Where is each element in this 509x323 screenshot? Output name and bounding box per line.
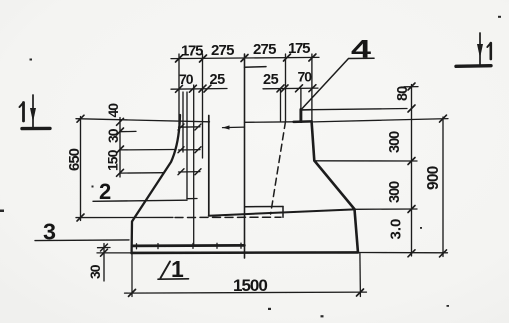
leader line for pos.2 — [93, 200, 187, 201]
section mark 1 (left) : bar — [22, 127, 50, 131]
slab toe bottom line — [97, 252, 132, 254]
svg-text:300: 300 — [387, 181, 403, 203]
label /1 underline — [158, 278, 189, 280]
ticks 25-70 right — [277, 85, 316, 92]
svg-text:70: 70 — [179, 71, 194, 87]
hidden step vertical — [282, 207, 284, 218]
ticks 70-25 left — [176, 85, 212, 92]
recess left edge — [208, 116, 210, 216]
toe thickness dim line 30 — [103, 244, 105, 282]
rebar cage hook — [187, 198, 197, 200]
650 ticks — [77, 115, 84, 221]
tenon (pos.4) left bold edge — [299, 110, 302, 122]
top dimension line — [171, 57, 319, 58]
extension line 275/175 right — [285, 54, 287, 121]
cage crossbar 2 — [179, 149, 201, 151]
section mark 1 (right) : arrow line — [479, 33, 481, 65]
right chain top stub — [404, 86, 418, 88]
left chain extension 30 level — [120, 130, 136, 132]
svg-text:2: 2 — [99, 179, 111, 204]
svg-text:40: 40 — [105, 103, 121, 118]
svg-text:275: 275 — [211, 42, 234, 59]
extension of knee line to right chain — [355, 208, 418, 210]
extension from 25-right tick down — [280, 89, 282, 121]
mesh tick marks — [137, 243, 242, 249]
section mark 1 (left) : label 1 — [22, 103, 25, 122]
section mark 1 (right) : label 1 — [489, 43, 492, 59]
900 dimension line — [442, 117, 444, 257]
svg-text:80: 80 — [395, 86, 411, 101]
rebar cage line b — [186, 92, 188, 199]
svg-text:30: 30 — [87, 264, 103, 279]
svg-text:175: 175 — [288, 40, 310, 57]
long top face line (left part, level +40) — [76, 119, 210, 122]
center vertical extension line — [244, 54, 246, 258]
slab bottom extension to chains — [358, 252, 448, 254]
top face extension to 900 line — [314, 119, 449, 122]
section mark 1 (right) : bar — [456, 64, 491, 68]
1500 dimension line — [125, 292, 367, 293]
svg-text:275: 275 — [253, 41, 276, 58]
top face line between centre and right rib — [245, 121, 295, 124]
slab top edge (bold, with mesh ticks) — [132, 244, 244, 247]
1500 extension line right — [359, 253, 362, 297]
section mark 1 (left) : arrow line — [32, 95, 34, 127]
short shelf line at centre (y=67) — [245, 66, 267, 69]
left inner dim chain line — [119, 118, 121, 178]
svg-text:650: 650 — [66, 148, 83, 171]
tenon top extension line to right chain — [312, 109, 407, 110]
right dim chain line — [411, 85, 413, 257]
left chain extension 150 bottom level — [120, 172, 164, 174]
slab toe top line — [98, 247, 111, 249]
svg-text:25: 25 — [210, 72, 226, 88]
rebar cage line c (long) — [193, 85, 195, 246]
tenon top — [301, 109, 312, 111]
arrowhead of small arrow — [223, 125, 230, 129]
label /1 slash — [161, 262, 171, 279]
right chain ticks — [408, 83, 415, 257]
cage crossbar 3 — [179, 171, 201, 173]
svg-text:175: 175 — [181, 43, 203, 60]
recess bottom line — [209, 209, 355, 215]
svg-text:900: 900 — [425, 166, 442, 190]
1500 extension line left — [131, 254, 133, 297]
left chain ticks — [117, 118, 124, 176]
top dimension ticks — [176, 54, 316, 62]
svg-text:3.0: 3.0 — [388, 219, 405, 240]
leader line for pos.3 — [35, 239, 129, 242]
650 bottom extension line — [76, 216, 173, 218]
svg-text:1500: 1500 — [233, 276, 267, 295]
extension line right 175 end — [311, 54, 313, 121]
svg-text:70: 70 — [298, 69, 313, 85]
svg-text:4: 4 — [351, 36, 371, 64]
small arrow line at centre — [223, 126, 245, 129]
dim line 25-70 (right) — [263, 87, 318, 90]
svg-text:300: 300 — [387, 131, 403, 153]
hidden edge (dashed slant) — [271, 122, 286, 215]
section mark 1 (right) : arrowhead — [477, 44, 483, 58]
rebar cage line a — [182, 92, 184, 152]
slab bottom edge (bold) — [132, 251, 359, 254]
left chain extension 150 top level — [120, 149, 174, 151]
left rib outer face (curved flare, bold) — [132, 115, 180, 253]
right rib outer face (bold profile) — [312, 122, 358, 252]
leader line for pos.4 — [302, 58, 374, 108]
hidden edge (dashed horizontal) — [175, 216, 281, 218]
cage crossbar 1 — [179, 126, 201, 128]
svg-text:25: 25 — [263, 72, 279, 88]
crossbar end ticks — [178, 124, 201, 175]
extension above tenon — [300, 89, 302, 110]
toe dim ticks — [101, 244, 108, 256]
1500 ticks — [129, 289, 364, 296]
section mark 1 (left) : arrowhead — [30, 108, 36, 122]
right rib top edge (bold) — [294, 120, 312, 123]
dim line 70-25 (left) — [171, 88, 227, 91]
900 ticks — [440, 115, 447, 257]
extension line from tick 175/275 — [178, 54, 180, 124]
knee extension line (level 300) — [314, 160, 417, 162]
svg-text:30: 30 — [105, 128, 121, 143]
svg-text:150: 150 — [105, 149, 121, 171]
650 dimension line — [80, 117, 82, 221]
hidden step horizontal — [245, 206, 283, 208]
extension line from tick 275/275 left — [202, 54, 204, 158]
